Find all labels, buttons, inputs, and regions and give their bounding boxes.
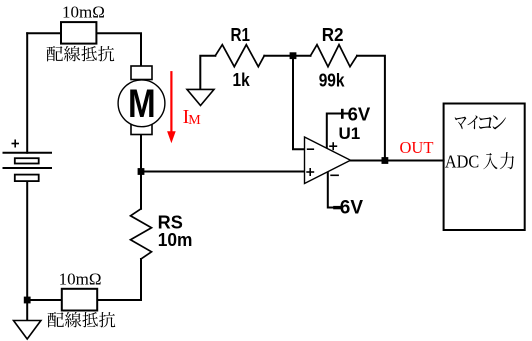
wire op-amp output to ADC box	[351, 160, 444, 162]
svg-text:1k: 1k	[233, 70, 251, 90]
svg-text:M: M	[188, 113, 201, 128]
label text haisen-t4 (抗)	[98, 46, 114, 61]
svg-text:ADC: ADC	[445, 152, 479, 172]
battery BT1 plate long bottom	[4, 167, 52, 169]
wire node B to ground	[26, 300, 28, 321]
wire R1 left to ground	[200, 56, 215, 90]
battery BT1 plus sign	[12, 140, 20, 148]
label text haisen-t2 (線)	[64, 46, 80, 61]
node D junction dot	[382, 157, 389, 164]
svg-text:10m: 10m	[158, 230, 193, 250]
label text haisen-b1 (配)	[48, 312, 64, 327]
battery BT1 plate long top	[4, 152, 52, 154]
ground R1	[187, 89, 214, 105]
wire node C down to op-amp - input	[293, 56, 305, 150]
svg-text:R1: R1	[231, 25, 251, 45]
wire motor bottom to node A	[140, 135, 142, 172]
op-amp U1 triangle	[305, 137, 351, 184]
motor M1 brush bottom	[131, 121, 152, 135]
ground battery	[14, 321, 41, 340]
svg-text:6V: 6V	[340, 198, 364, 219]
op-amp U1 plus input mark	[306, 168, 314, 176]
label text haisen-b2 (線)	[65, 312, 81, 327]
battery BT1 cell plate rect 1	[15, 158, 39, 163]
wire battery top vertical	[26, 33, 28, 153]
wire R-wiring2 left to node B	[27, 299, 62, 301]
node C junction dot	[290, 52, 297, 59]
node A junction dot	[138, 168, 145, 175]
label text mai-1 (マ)	[455, 117, 466, 130]
resistor R1 zigzag	[215, 45, 264, 67]
svg-text:10mΩ: 10mΩ	[59, 269, 102, 288]
box microcontroller	[444, 104, 525, 231]
label text haisen-b3 (抵)	[82, 312, 97, 327]
op-amp U1 V- mark	[330, 174, 339, 176]
wire +6V supply	[327, 114, 348, 149]
label text mai-4 (ン)	[493, 115, 506, 129]
motor M1 body circle	[118, 80, 165, 127]
wire RS bottom to R-wiring2	[97, 259, 141, 300]
wire R2 right to output node D	[357, 56, 385, 161]
node B junction dot	[24, 297, 31, 304]
label text nyu-2 (力)	[500, 152, 514, 169]
svg-text:10mΩ: 10mΩ	[62, 3, 105, 22]
resistor RS zigzag	[131, 209, 152, 259]
wire R-wiring1 right to motor top	[96, 33, 141, 66]
resistor R-wiring2 box	[62, 289, 97, 311]
label text mai-3 (コ)	[479, 117, 492, 129]
svg-text:R2: R2	[322, 25, 344, 45]
wire node A down to RS	[140, 172, 142, 209]
resistor R-wiring1 box	[61, 22, 96, 43]
current arrow IM	[170, 71, 172, 133]
wire bus node A to op-amp + input	[141, 171, 305, 173]
op-amp U1 V+ mark	[329, 142, 337, 150]
wire top-left horizontal to R-wiring1	[27, 32, 61, 34]
svg-text:6V: 6V	[348, 104, 371, 125]
wire battery bottom vertical	[26, 181, 28, 300]
label text nyu-1 (入)	[483, 153, 497, 169]
op-amp U1 minus input mark	[307, 148, 314, 150]
battery BT1 cell plate rect 2	[15, 175, 39, 182]
label text haisen-t1 (配)	[47, 46, 63, 61]
label -6V	[333, 206, 341, 209]
wire R1 right to node C	[264, 55, 293, 57]
svg-text:99k: 99k	[319, 70, 346, 90]
svg-text:M: M	[128, 81, 156, 125]
svg-text:OUT: OUT	[400, 138, 434, 157]
wire -6V supply	[328, 172, 334, 208]
label text mai-2 (イ)	[467, 116, 477, 130]
svg-text:U1: U1	[339, 124, 361, 143]
label text haisen-b4 (抗)	[99, 312, 115, 327]
label text haisen-t3 (抵)	[81, 46, 96, 61]
motor M1 brush top	[131, 66, 152, 80]
resistor R2 zigzag	[311, 45, 358, 67]
label +6V	[341, 109, 344, 119]
wire node C to R2	[293, 55, 311, 57]
